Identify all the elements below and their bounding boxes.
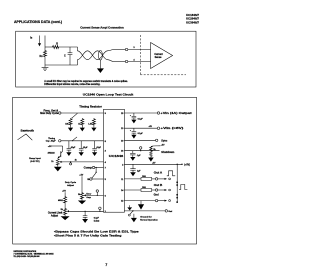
capacitor C .01uF b	[80, 141, 82, 149]
capacitor C	[69, 47, 71, 53]
node vref	[177, 164, 178, 165]
svg-text:Comp: Comp	[84, 167, 93, 170]
resistor divider lower	[150, 151, 153, 158]
svg-text:Amp: Amp	[86, 196, 91, 199]
waveform Out A	[167, 171, 175, 176]
capacitor C .01uF a	[68, 141, 70, 149]
stub comp to switch	[96, 167, 97, 168]
svg-text:.01µF: .01µF	[70, 147, 76, 149]
wire comp row	[95, 167, 104, 169]
ground arrow under 1k	[81, 126, 83, 128]
wire GND row	[124, 200, 155, 202]
scope common line	[176, 164, 178, 202]
svg-text:Duty Cycle: Duty Cycle	[65, 181, 77, 184]
svg-text:Current Limit: Current Limit	[48, 212, 63, 215]
ground arrow at twisted pair shield	[99, 60, 101, 68]
wire pair to terminals	[113, 49, 125, 51]
resistor 50 ohm B (box)	[141, 189, 152, 192]
svg-text:Ramp Input: Ramp Input	[29, 157, 41, 160]
svg-text:Cap .01µF: Cap .01µF	[46, 140, 57, 142]
node ramp test point	[70, 161, 71, 162]
svg-text:Adjust: Adjust	[51, 214, 58, 217]
svg-text:0.1µF: 0.1µF	[94, 217, 100, 219]
capacitor C .01uF c	[94, 141, 96, 149]
op-amp current sense	[151, 43, 173, 69]
svg-text:Out A: Out A	[154, 171, 163, 174]
wire ramp row to pin 4	[63, 161, 104, 163]
svg-text:Max Duty Cycle: Max Duty Cycle	[40, 112, 59, 115]
resistor 1k	[81, 118, 84, 125]
svg-text:Sync: Sync	[161, 140, 168, 143]
svg-text:UC1846: UC1846	[109, 154, 124, 158]
wire Rs to ground	[44, 57, 46, 65]
svg-text:+5V: +5V	[48, 146, 52, 148]
transistor Q1 2N2222	[60, 151, 62, 157]
wire +5V to Q1	[52, 145, 63, 147]
svg-text:R: R	[56, 43, 58, 46]
svg-text:UC3846/7: UC3846/7	[186, 21, 199, 25]
svg-text:.01µF: .01µF	[96, 147, 102, 149]
wire VC row	[124, 127, 157, 129]
terminal ramp	[70, 163, 72, 165]
node top	[45, 46, 52, 48]
svg-text:0.1µF: 0.1µF	[138, 133, 144, 135]
sawtooth waveform	[18, 134, 33, 140]
wire OutB row	[124, 189, 141, 191]
terminal CS+	[125, 48, 128, 51]
twisted pair wires	[78, 47, 114, 62]
waveform Out B	[179, 185, 187, 190]
wire SYNC row	[124, 139, 155, 141]
svg-text:Error: Error	[86, 193, 91, 195]
resistor 499 ohm	[64, 192, 66, 196]
wire bottom rail	[45, 64, 78, 66]
wire chip bottom row	[124, 210, 165, 212]
wire +5V to 5k	[151, 145, 160, 148]
svg-text:50Ω: 50Ω	[142, 187, 146, 189]
svg-text:Shutdown: Shutdown	[161, 151, 174, 154]
svg-text:Normal Operation: Normal Operation	[140, 219, 158, 222]
IC boundary dashed	[139, 35, 141, 75]
wiper arrow duty pot	[84, 194, 86, 196]
ground arrow under duty pot	[81, 199, 83, 200]
svg-text:C: C	[64, 55, 66, 58]
capacitor bypass VIN 0.1uF	[133, 113, 135, 116]
wire VIN row	[124, 112, 157, 114]
svg-text:Current: Current	[154, 53, 163, 56]
svg-text:+Vin (4A) Output: +Vin (4A) Output	[160, 111, 191, 115]
resistor 1.5k	[92, 118, 95, 125]
ground fig1	[44, 65, 46, 67]
figure 2 frame	[13, 97, 197, 244]
terminal +Vin 8V	[157, 127, 159, 129]
svg-text:+5V: +5V	[79, 175, 83, 177]
IC U1 UC1846 box	[104, 109, 125, 212]
resistor Rs	[44, 50, 47, 57]
svg-text:+5V: +5V	[62, 191, 66, 193]
wire VREF row	[124, 163, 182, 165]
ground arrow divider	[148, 158, 154, 162]
wire terminals to amp	[128, 49, 151, 51]
node EA- test point	[97, 195, 98, 196]
terminal CS-	[125, 60, 128, 63]
terminal bottom gnd	[165, 210, 167, 212]
switch CT select	[73, 137, 78, 141]
wire CT row	[61, 140, 104, 142]
svg-text:2N2222: 2N2222	[48, 153, 56, 155]
svg-text:•Short Pins 5 & 7 For Unity Ga: •Short Pins 5 & 7 For Unity Gain Testing	[54, 233, 122, 237]
svg-text:0.1µF: 0.1µF	[138, 119, 144, 121]
wire 499 to pot	[64, 203, 66, 208]
svg-text:UC1846 Open Loop Test Circuit: UC1846 Open Loop Test Circuit	[83, 92, 134, 96]
potentiometer 5k current limit	[64, 208, 67, 215]
svg-text:50Ω: 50Ω	[142, 176, 146, 178]
capacitor bypass VC 0.1uF	[133, 128, 135, 131]
svg-text:Sawtooth: Sawtooth	[21, 130, 35, 133]
svg-text:+Vin (>8V): +Vin (>8V)	[160, 126, 183, 130]
svg-text:UNITRODE CORPORATION: UNITRODE CORPORATION	[14, 250, 37, 253]
wire shutdown row	[124, 150, 159, 152]
capacitor .1uF shutdown	[132, 151, 134, 154]
ground arrow under 10k	[70, 126, 72, 128]
ground arrow under 1.5k	[93, 126, 95, 128]
svg-text:Out B: Out B	[154, 184, 163, 187]
svg-text:Ground for: Ground for	[140, 217, 152, 219]
terminal CT	[59, 140, 61, 142]
switch RT select	[72, 113, 78, 118]
svg-text:Timing Resistor: Timing Resistor	[79, 105, 102, 108]
terminal EA-	[96, 190, 98, 192]
wire EA+ row	[92, 178, 103, 180]
wire OutA row	[124, 178, 141, 180]
terminal OutB	[155, 189, 157, 191]
terminal sync	[156, 139, 158, 141]
terminal Gnd	[155, 199, 157, 201]
ground arrow onto bottom row	[129, 205, 131, 207]
svg-text:7 CONTINENTAL BLVD. • MERRIMAC: 7 CONTINENTAL BLVD. • MERRIMACK, NH 0305…	[14, 252, 54, 255]
svg-text:APPLICATIONS DATA (cont.): APPLICATIONS DATA (cont.)	[14, 20, 62, 24]
svg-text:499Ω: 499Ω	[58, 199, 63, 202]
capacitor 1uF vref	[132, 164, 134, 168]
svg-text:Sense: Sense	[155, 57, 162, 59]
svg-text:(0-3V PK): (0-3V PK)	[30, 161, 40, 163]
svg-text:Differential input allows remo: Differential input allows remote, noise-…	[44, 83, 100, 86]
svg-text:TEL. (603) 424-2410 • FAX (603: TEL. (603) 424-2410 • FAX (603) 424-3460	[14, 255, 40, 258]
wiper arrow ramp pot	[59, 161, 61, 163]
svg-text:.01µF: .01µF	[83, 147, 89, 149]
capacitor 0.1uF on pin 1	[85, 211, 86, 212]
resistor 50 ohm A (box)	[141, 177, 152, 180]
twisted pair junction ellipse	[98, 50, 102, 60]
terminal CL test point	[99, 207, 101, 209]
wire RT row	[61, 112, 104, 114]
terminal comp	[92, 166, 94, 168]
svg-text:7: 7	[105, 263, 107, 267]
terminal shutdown test	[140, 147, 142, 149]
ground arrow under ramp pot	[57, 165, 59, 166]
svg-text:Current Sense Ampl Connection: Current Sense Ampl Connection	[80, 25, 124, 29]
wire CL wiper to pin 1	[69, 210, 104, 212]
svg-text:(+5V): (+5V)	[184, 164, 190, 166]
potentiometer 1k ramp	[56, 158, 59, 165]
resistor 5k shutdown	[150, 146, 153, 151]
terminal +Vin	[157, 112, 159, 114]
wire +5V to duty pot	[81, 176, 83, 192]
ground arrow under CL pot	[64, 215, 66, 216]
wire duty wiper to pin 6	[86, 194, 104, 196]
figure 1 frame	[16, 31, 196, 87]
svg-text:+5V: +5V	[161, 145, 165, 147]
current source Is arrow	[39, 36, 41, 44]
ground arrow on gnd row	[140, 201, 142, 205]
probe arrow OutA	[158, 178, 165, 180]
svg-text:A small R/C filter may be requ: A small R/C filter may be required to su…	[44, 80, 128, 83]
potentiometer duty cycle 5k	[81, 192, 84, 199]
svg-text:Gnd: Gnd	[154, 194, 159, 197]
resistor 10k	[69, 118, 72, 125]
wire input vertical	[44, 36, 46, 51]
switch unity gain 5-7	[92, 173, 96, 178]
terminal RT	[59, 112, 61, 114]
probe arrow OutB	[158, 189, 165, 191]
svg-text:Adjust: Adjust	[67, 184, 74, 187]
svg-text:5.1kΩ: 5.1kΩ	[94, 220, 100, 222]
terminal OutA	[155, 178, 157, 180]
switch shutdown ground	[132, 210, 133, 211]
resistor R	[52, 46, 59, 49]
wiper arrow CL pot	[67, 210, 69, 212]
wire R to pair top	[59, 46, 77, 48]
terminal EA+	[90, 178, 92, 180]
